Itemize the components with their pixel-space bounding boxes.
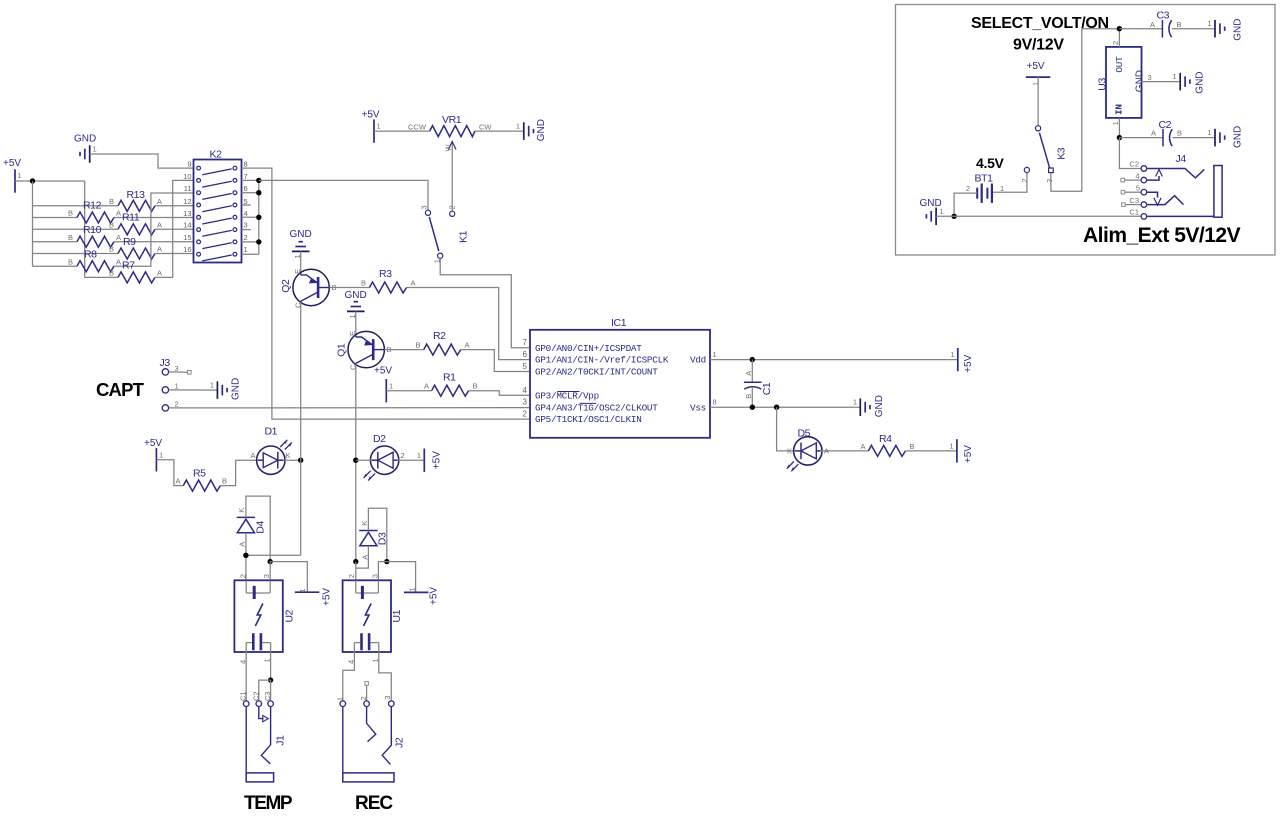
wire D5 to R4: [821, 450, 869, 452]
resistor R9: [109, 236, 162, 259]
svg-text:Vss: Vss: [690, 402, 706, 413]
wire C3 to GND: [1172, 28, 1215, 30]
svg-text:1: 1: [1000, 184, 1004, 193]
svg-text:J4: J4: [1176, 153, 1187, 165]
power +5V (D2): [417, 449, 443, 472]
wire +5V to buses: [15, 180, 85, 182]
svg-text:Q1: Q1: [335, 343, 347, 357]
wire K2 pin 8 to IC1 GP5: [242, 168, 531, 419]
resistor R2: [416, 330, 470, 355]
svg-text:+5V: +5V: [431, 451, 442, 469]
svg-text:1: 1: [949, 441, 953, 450]
svg-text:15: 15: [183, 233, 191, 242]
svg-text:K1: K1: [458, 230, 470, 243]
wire Q1 collector down: [355, 364, 357, 561]
svg-text:1: 1: [1172, 72, 1176, 81]
svg-text:B: B: [68, 257, 73, 266]
svg-text:J3: J3: [160, 357, 171, 369]
svg-text:A: A: [861, 442, 866, 451]
svg-text:+5V: +5V: [963, 445, 974, 463]
svg-text:C2: C2: [1129, 160, 1139, 169]
power +5V (R5): [144, 438, 163, 471]
svg-text:12: 12: [183, 197, 191, 206]
svg-text:C3: C3: [1157, 10, 1170, 22]
svg-text:7: 7: [244, 172, 248, 181]
wire R3 A to IC1 GP1: [407, 288, 531, 360]
wire D2 A to +5V: [398, 459, 425, 461]
svg-text:U2: U2: [284, 609, 296, 622]
power +5V (U2): [295, 588, 333, 606]
svg-text:K: K: [787, 447, 792, 456]
svg-text:A: A: [157, 221, 162, 230]
svg-text:1: 1: [377, 122, 381, 131]
ground GND (J3): [210, 378, 241, 400]
wire U2 pin4 to J1 C1: [245, 652, 247, 701]
wire D3 cathode bypass: [368, 508, 386, 561]
wire common bus to K1 pin 3: [259, 180, 428, 210]
wire R12 A to K2 pin 13: [114, 217, 193, 219]
svg-text:C3: C3: [263, 691, 272, 701]
wire R11 A to K2 pin 14: [155, 228, 193, 230]
svg-text:A: A: [176, 477, 181, 486]
svg-text:3: 3: [523, 398, 528, 407]
wire K2 pin 1: [242, 253, 259, 255]
svg-text:+5V: +5V: [963, 354, 974, 372]
IC U1 PIC microcontroller IC1: [523, 317, 717, 438]
svg-text:GND: GND: [536, 119, 547, 141]
svg-text:A: A: [411, 279, 416, 288]
wire GND to K2 pin 9: [90, 154, 194, 168]
wire +5V bus 2: [85, 181, 118, 277]
wire +5V to R1: [386, 390, 431, 392]
wire Q2 emitter: [300, 251, 302, 272]
wire J3 pin3 stub pad: [169, 371, 188, 373]
svg-text:B: B: [361, 279, 366, 288]
svg-text:TEMP: TEMP: [244, 793, 293, 814]
svg-text:W: W: [444, 144, 453, 152]
svg-text:B: B: [109, 197, 114, 206]
transistor Q1: [335, 331, 391, 370]
svg-text:GND: GND: [1195, 71, 1206, 93]
resistor R4: [861, 433, 915, 456]
svg-text:R2: R2: [433, 330, 446, 342]
svg-text:3: 3: [420, 205, 429, 209]
jack J2: [335, 696, 405, 782]
wire K2 pin 2: [242, 241, 259, 243]
svg-text:GP1/AN1/CIN-/Vref/ICSPCLK: GP1/AN1/CIN-/Vref/ICSPCLK: [535, 355, 669, 366]
junction U2 pin3 node: [268, 559, 273, 564]
wire common vertical: [258, 180, 260, 254]
capacitor C3: [1150, 10, 1182, 38]
svg-text:2: 2: [966, 184, 970, 193]
wire OUT node to C3: [1119, 28, 1162, 30]
wire K2 pin 6: [242, 192, 259, 194]
svg-text:U1: U1: [391, 609, 403, 622]
svg-text:4.5V: 4.5V: [976, 155, 1005, 171]
svg-text:D4: D4: [255, 521, 267, 534]
wire row pin15: [33, 241, 78, 243]
svg-text:1: 1: [713, 350, 717, 359]
svg-text:1: 1: [1207, 128, 1211, 137]
svg-text:1: 1: [244, 245, 248, 254]
svg-text:B: B: [473, 382, 478, 391]
svg-text:3: 3: [244, 221, 248, 230]
svg-text:4: 4: [1135, 171, 1139, 180]
svg-text:1: 1: [93, 145, 97, 154]
svg-text:16: 16: [183, 245, 191, 254]
wire J3 pin2 to IC1 GP4: [169, 407, 530, 409]
wire +5V to R5: [156, 460, 183, 486]
junction: [30, 178, 35, 183]
wire U1 pin3 jog: [378, 562, 386, 581]
ground GND (C2): [1207, 126, 1243, 148]
capacitor C2: [1151, 119, 1182, 146]
svg-text:R5: R5: [193, 468, 206, 480]
svg-text:GND: GND: [74, 134, 96, 145]
ground GND (Vss): [853, 395, 885, 417]
svg-text:GND: GND: [230, 378, 241, 400]
resistor R12: [68, 200, 121, 224]
wire R5 B to D1 anode: [220, 460, 256, 485]
svg-text:CW: CW: [479, 123, 492, 132]
potentiometer VR1: [408, 114, 492, 211]
LED D2: [364, 433, 405, 481]
wire VR1 CW to GND: [475, 130, 524, 132]
LED D1: [250, 426, 291, 475]
wire Vdd to +5V: [710, 359, 958, 361]
resistor R1: [424, 372, 478, 397]
wire BT1 neg to GND rail: [954, 193, 977, 216]
wire C2 to GND: [1173, 137, 1215, 139]
junction U1 pin3 node: [384, 559, 389, 564]
wire +5V to VR1 CCW: [374, 130, 430, 132]
switch K3: [1020, 126, 1068, 183]
svg-text:A: A: [116, 209, 121, 218]
wire J3 pin1 to GND: [169, 389, 218, 391]
wire U1 pin1 to J2 pin3: [379, 652, 392, 701]
svg-text:R7: R7: [122, 260, 135, 272]
svg-text:+5V: +5V: [362, 110, 380, 121]
svg-text:R13: R13: [127, 189, 146, 201]
junction dots on common bus: [256, 178, 261, 183]
svg-text:CAPT: CAPT: [96, 379, 145, 400]
svg-text:K: K: [237, 508, 246, 513]
wire K2 pin 3 stub: [242, 229, 251, 231]
svg-text:8: 8: [244, 160, 248, 169]
connector K2: [183, 149, 248, 263]
svg-text:GP2/AN2/T0CKI/INT/COUNT: GP2/AN2/T0CKI/INT/COUNT: [535, 367, 658, 378]
svg-text:R3: R3: [379, 268, 392, 280]
svg-text:1: 1: [175, 381, 179, 390]
power +5V (R1): [374, 366, 393, 403]
svg-text:R4: R4: [879, 433, 892, 445]
svg-text:GND: GND: [874, 395, 885, 417]
svg-text:3: 3: [1148, 73, 1152, 82]
svg-text:C3: C3: [1129, 196, 1139, 205]
svg-text:U3: U3: [1096, 78, 1108, 91]
svg-text:GP5/T1CKI/OSC1/CLKIN: GP5/T1CKI/OSC1/CLKIN: [535, 414, 642, 425]
battery BT1: [966, 173, 1004, 203]
wire K3 pin3 up to OUT node: [1051, 29, 1120, 192]
ground GND (BT1): [920, 198, 944, 225]
capacitor C1: [744, 360, 773, 408]
power +5V (VR1): [362, 110, 381, 143]
svg-text:2: 2: [359, 696, 368, 700]
svg-text:+5V: +5V: [3, 158, 21, 169]
svg-text:2: 2: [239, 574, 248, 578]
svg-text:E: E: [348, 331, 357, 336]
overline MCLR: [557, 391, 579, 393]
svg-text:GP3/MCLR/Vpp: GP3/MCLR/Vpp: [535, 390, 599, 401]
svg-text:10: 10: [183, 172, 191, 181]
svg-text:1: 1: [417, 451, 421, 460]
wire R4 to +5V: [905, 450, 957, 452]
svg-text:1: 1: [407, 587, 416, 591]
svg-text:K: K: [286, 451, 291, 460]
wire R8 A up to K2 pin 11: [114, 193, 193, 266]
resistor R7: [109, 260, 162, 283]
wire K2 pin 4: [242, 216, 259, 218]
svg-text:8: 8: [713, 398, 717, 407]
svg-text:SELECT_VOLT/ON: SELECT_VOLT/ON: [971, 15, 1109, 32]
svg-text:6: 6: [523, 350, 528, 359]
wire R9 A to K2 pin 16: [155, 253, 193, 255]
diode D3: [359, 521, 388, 560]
svg-text:B: B: [910, 442, 915, 451]
wire U3 GND pin3: [1142, 81, 1181, 83]
ground GND (VR1): [516, 119, 547, 141]
wire U2 pin1 to J1: [270, 652, 272, 680]
svg-text:A: A: [116, 257, 121, 266]
svg-text:13: 13: [183, 209, 191, 218]
svg-text:A: A: [116, 233, 121, 242]
wire Q2 collector to D4/U2 node: [246, 554, 301, 556]
resistor R10: [68, 224, 121, 247]
jack J1: [239, 691, 287, 781]
svg-text:C1: C1: [239, 691, 248, 701]
resistor R3: [361, 268, 416, 293]
svg-text:A: A: [744, 371, 753, 376]
svg-text:GP0/AN0/CIN+/ICSPDAT: GP0/AN0/CIN+/ICSPDAT: [535, 343, 642, 354]
svg-text:1: 1: [210, 381, 214, 390]
relay SSR U2: [234, 574, 295, 664]
svg-text:+5V: +5V: [374, 366, 392, 377]
wire U3 IN lead to C2 node: [1118, 118, 1120, 138]
relay SSR U1: [343, 574, 404, 664]
svg-text:GND: GND: [1233, 126, 1244, 148]
output contact plates: [252, 633, 255, 650]
svg-text:2: 2: [175, 399, 179, 408]
wire K3 pin2 to BT1: [991, 173, 1027, 193]
wire row pin13: [33, 217, 78, 219]
svg-text:A: A: [157, 245, 162, 254]
svg-text:Q2: Q2: [280, 279, 292, 293]
wire K2 pin 5 stub: [242, 204, 251, 206]
svg-text:B: B: [222, 477, 227, 486]
power +5V (top left): [3, 158, 22, 193]
ground GND (C3): [1207, 19, 1243, 41]
wire J1 C2 branch: [259, 680, 271, 700]
svg-text:+5V: +5V: [144, 438, 162, 449]
svg-text:7: 7: [523, 338, 528, 347]
svg-text:4: 4: [244, 209, 248, 218]
svg-text:B: B: [109, 269, 114, 278]
svg-text:OUT: OUT: [1114, 56, 1125, 73]
svg-text:B: B: [68, 209, 73, 218]
wire Q2 collector down: [300, 302, 302, 555]
svg-text:IC1: IC1: [611, 317, 627, 329]
svg-text:+5V: +5V: [429, 587, 440, 605]
svg-text:REC: REC: [355, 793, 393, 814]
svg-text:B: B: [68, 233, 73, 242]
resistor R8: [68, 248, 121, 271]
pad J2 pin2: [365, 682, 369, 686]
svg-text:A: A: [250, 451, 255, 460]
svg-text:A: A: [465, 341, 470, 350]
regulator U3: [1096, 41, 1151, 126]
resistor R11: [109, 212, 162, 235]
LED D5: [787, 428, 829, 472]
wire R2 A to IC1 GP2: [461, 350, 530, 372]
wire Vss to GND: [710, 406, 860, 408]
svg-text:2: 2: [1111, 41, 1120, 45]
ground GND (Q1 emitter): [345, 290, 367, 319]
wire IN node to J4 C2: [1119, 138, 1140, 169]
power +5V (R4): [949, 439, 974, 463]
svg-text:3: 3: [370, 574, 379, 578]
svg-text:+5V: +5V: [321, 588, 332, 606]
svg-text:R9: R9: [123, 236, 136, 248]
wire IN node to C2: [1119, 137, 1163, 139]
svg-text:1: 1: [853, 398, 857, 407]
svg-text:B: B: [744, 394, 753, 399]
svg-text:9V/12V: 9V/12V: [1013, 37, 1064, 54]
wire D3 anode to node: [356, 546, 369, 568]
svg-text:VR1: VR1: [442, 114, 462, 126]
svg-text:6: 6: [244, 184, 248, 193]
wire D4 cathode bypass: [246, 496, 270, 561]
svg-text:14: 14: [183, 221, 191, 230]
switch K1: [420, 205, 470, 263]
svg-text:J1: J1: [275, 735, 287, 746]
svg-text:A: A: [1151, 129, 1156, 138]
svg-text:2: 2: [447, 205, 456, 209]
wire J1 C3: [270, 680, 272, 700]
svg-text:A: A: [157, 269, 162, 278]
wire U2 pin3 lead: [269, 562, 271, 581]
svg-text:GND: GND: [920, 198, 942, 209]
svg-text:GND: GND: [1233, 19, 1244, 41]
wire Vss branch to D5: [777, 407, 794, 451]
frame power supply box: [896, 5, 1276, 256]
diode D4: [237, 508, 267, 547]
wire U2 pin3 node to +5V: [270, 562, 307, 593]
ground GND (Q2 emitter): [290, 229, 312, 259]
svg-text:Alim_Ext 5V/12V: Alim_Ext 5V/12V: [1083, 224, 1241, 247]
ground GND (top left): [74, 134, 97, 163]
svg-text:3: 3: [262, 574, 271, 578]
wire row R8: [33, 265, 78, 267]
wire U1 pin4 to J2 pin1: [343, 652, 355, 701]
svg-text:2: 2: [244, 233, 248, 242]
svg-text:K3: K3: [1056, 147, 1068, 160]
wire K2 pin 7 common bus: [242, 179, 259, 181]
svg-text:9: 9: [187, 160, 191, 169]
svg-text:B: B: [1177, 20, 1182, 29]
wire GND rail to J4 C1: [936, 215, 1141, 217]
svg-text:C1: C1: [761, 382, 773, 395]
svg-text:BT1: BT1: [975, 173, 994, 185]
wire D4 anode to node: [245, 533, 247, 581]
overline T1G: [580, 402, 597, 404]
wire K1 pin1 to IC1 GP0: [440, 259, 530, 348]
svg-text:2: 2: [523, 410, 528, 419]
power +5V (K3): [1026, 61, 1051, 86]
wire U1 node to +5V: [387, 562, 416, 593]
svg-text:3: 3: [383, 696, 392, 700]
svg-text:4: 4: [523, 386, 528, 395]
svg-text:2: 2: [401, 451, 405, 460]
svg-text:A: A: [424, 382, 429, 391]
svg-text:R10: R10: [83, 224, 102, 236]
svg-text:R1: R1: [443, 372, 456, 384]
svg-text:1: 1: [389, 381, 393, 390]
svg-text:1: 1: [1207, 19, 1211, 28]
wire row pin16: [33, 253, 119, 255]
wire Q1 emitter: [355, 311, 357, 334]
svg-text:5: 5: [523, 362, 528, 371]
svg-text:1: 1: [159, 450, 163, 459]
wire R1 B to IC1 GP3: [469, 391, 530, 396]
svg-text:K: K: [360, 521, 369, 526]
resistor R13: [109, 189, 162, 211]
power +5V (U1): [404, 587, 440, 605]
wire D1 K to Q2 collector line: [284, 459, 301, 461]
svg-text:B: B: [109, 221, 114, 230]
svg-text:IN: IN: [1113, 104, 1124, 115]
svg-text:R8: R8: [84, 248, 97, 260]
connector J3: [160, 357, 179, 411]
transistor Q2: [280, 269, 336, 308]
svg-text:GND: GND: [290, 229, 312, 240]
lightning bolt: [255, 604, 263, 627]
wire U1 pin2 lead: [355, 562, 357, 581]
svg-text:R11: R11: [122, 212, 140, 224]
wire Q1 base to R2: [384, 349, 423, 351]
ground GND (U3): [1172, 71, 1205, 93]
svg-text:2: 2: [1020, 178, 1029, 182]
svg-text:D1: D1: [265, 426, 278, 438]
svg-text:1: 1: [940, 207, 944, 216]
svg-text:C1: C1: [1129, 208, 1139, 217]
wire row pin14: [33, 228, 119, 230]
svg-text:11: 11: [184, 184, 192, 193]
wire D2 K to Q1 collector: [356, 459, 372, 461]
svg-text:C2: C2: [251, 691, 260, 701]
svg-text:1: 1: [516, 122, 520, 131]
svg-text:1: 1: [18, 171, 22, 180]
wire R13 A to K2 pin 12: [155, 205, 193, 207]
svg-text:1: 1: [950, 350, 954, 359]
wire R7 A up to K2 pin 10: [155, 180, 193, 277]
wiper arrow: [451, 142, 453, 212]
svg-text:A: A: [157, 197, 162, 206]
svg-text:D2: D2: [373, 433, 386, 445]
svg-text:3: 3: [1045, 179, 1054, 183]
wire +5V to K3 pin1: [1037, 77, 1039, 126]
svg-text:Vdd: Vdd: [690, 355, 706, 366]
svg-text:R12: R12: [83, 200, 102, 212]
